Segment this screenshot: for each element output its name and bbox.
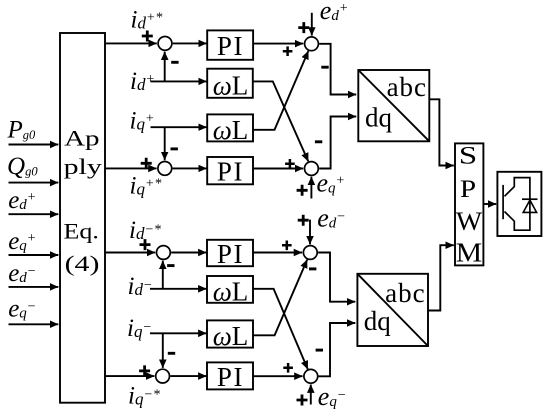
- svg-text:abc: abc: [387, 72, 427, 102]
- svg-text:Eq.: Eq.: [64, 220, 99, 244]
- svg-text:ed−: ed−: [8, 260, 36, 287]
- svg-text:id−: id−: [128, 273, 153, 300]
- svg-text:ωL: ωL: [213, 321, 249, 351]
- svg-text:eq−: eq−: [318, 382, 347, 411]
- svg-text:ωL: ωL: [213, 71, 249, 101]
- svg-text:abc: abc: [385, 278, 425, 308]
- svg-text:ed+: ed+: [8, 187, 36, 214]
- svg-text:ωL: ωL: [213, 115, 249, 145]
- svg-text:PI: PI: [217, 239, 244, 269]
- svg-text:Pg0: Pg0: [7, 117, 37, 144]
- svg-text:PI: PI: [217, 31, 244, 61]
- svg-text:id+*: id+*: [131, 6, 163, 33]
- svg-text:dq: dq: [365, 102, 393, 132]
- svg-text:M: M: [456, 238, 482, 267]
- svg-text:ωL: ωL: [213, 277, 249, 307]
- svg-text:iq−*: iq−*: [128, 383, 160, 410]
- svg-text:(4): (4): [65, 252, 100, 276]
- svg-text:dq: dq: [364, 306, 392, 336]
- svg-text:eq+: eq+: [8, 228, 36, 255]
- svg-text:S: S: [459, 142, 477, 169]
- svg-text:PI: PI: [217, 362, 244, 392]
- svg-text:W: W: [456, 207, 483, 236]
- svg-text:ed−: ed−: [317, 203, 346, 232]
- svg-text:eq−: eq−: [8, 295, 36, 322]
- svg-text:PI: PI: [217, 157, 244, 187]
- svg-text:iq+: iq+: [130, 108, 155, 135]
- svg-text:ed+: ed+: [320, 0, 349, 25]
- svg-text:Qg0: Qg0: [7, 153, 38, 180]
- svg-text:id+: id+: [130, 68, 155, 95]
- svg-text:ply: ply: [64, 155, 103, 179]
- svg-text:P: P: [460, 175, 476, 203]
- svg-text:iq+*: iq+*: [130, 173, 162, 200]
- svg-text:iq−: iq−: [127, 315, 152, 342]
- svg-text:Ap: Ap: [64, 126, 99, 151]
- svg-text:eq+: eq+: [317, 169, 346, 198]
